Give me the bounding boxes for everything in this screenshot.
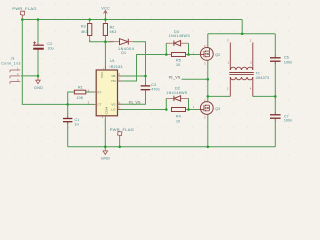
svg-text:J1: J1	[11, 56, 15, 60]
capacitor C3	[145, 83, 147, 93]
wire top rail	[22, 19, 242, 21]
svg-text:C1: C1	[75, 118, 80, 122]
svg-text:R2: R2	[110, 26, 115, 30]
pin 5 LO	[118, 109, 122, 111]
junction D3/R5 left	[165, 53, 168, 56]
svg-text:CT: CT	[97, 103, 101, 107]
wire R5 to Q2 gate	[189, 54, 201, 56]
power symbol VCC	[104, 11, 108, 20]
pin 1 VCC	[104, 66, 106, 70]
junction D3/R5 right	[187, 53, 190, 56]
svg-text:1N4148WS: 1N4148WS	[166, 91, 188, 95]
junction VS stub on half-bridge mid	[207, 78, 210, 81]
pin 2 RT	[93, 91, 96, 93]
junction D2/R4 left	[165, 108, 168, 111]
ic U1 IR2153	[96, 70, 117, 116]
svg-text:1n: 1n	[75, 123, 79, 127]
capacitor C2	[37, 42, 39, 51]
wire IC pin4 COM to ground rail	[104, 119, 106, 147]
capacitor C1	[67, 116, 69, 125]
wire VS net stub	[182, 78, 208, 80]
diode D2	[166, 96, 188, 110]
junction Q3 source on ground rail	[207, 146, 210, 149]
svg-text:4K3: 4K3	[110, 30, 117, 34]
wire C5 bottom to midpoint	[274, 62, 276, 114]
wire transformer left return	[208, 95, 231, 97]
resistor R1	[74, 90, 85, 94]
junction CT node R1/C1	[66, 103, 69, 106]
svg-text:C5: C5	[284, 56, 289, 60]
svg-text:LO: LO	[111, 108, 116, 112]
wire Q2 drain top	[207, 34, 209, 48]
svg-text:10K: 10K	[77, 96, 84, 100]
wire LO pin5 to R4	[118, 109, 167, 111]
transformer T1	[229, 43, 254, 97]
diode D1	[108, 39, 134, 45]
svg-text:10: 10	[176, 63, 180, 67]
pin 4 COM	[104, 116, 106, 119]
svg-text:Q3: Q3	[215, 107, 220, 111]
pin 3 CT	[93, 103, 96, 105]
svg-text:RT: RT	[97, 90, 101, 94]
svg-text:100n: 100n	[284, 119, 292, 123]
wire left vertical to CT row	[22, 20, 93, 105]
pin 8 VB	[118, 75, 122, 77]
resistor R3	[88, 24, 92, 36]
junction at PWR_FLAG on VCC rail	[21, 18, 24, 21]
svg-text:D1: D1	[121, 51, 126, 55]
svg-text:JM1073: JM1073	[256, 76, 270, 80]
ground GND left	[36, 76, 41, 84]
svg-text:R5: R5	[176, 58, 181, 62]
wire transformer right to cap midpoint	[253, 95, 275, 97]
capacitor C5	[274, 55, 276, 64]
pin 7 HO	[118, 80, 122, 82]
wire J1 pin2 to GND junction	[21, 75, 38, 77]
connector J1	[10, 70, 20, 84]
svg-text:U1: U1	[110, 59, 115, 63]
svg-text:COM: COM	[105, 107, 109, 115]
wire C1 bottom to ground rail	[67, 122, 69, 147]
wire R4 to Q3 gate	[189, 109, 201, 111]
resistor R5	[172, 53, 186, 57]
svg-text:GND: GND	[34, 86, 43, 90]
resistor R2	[103, 24, 107, 36]
svg-text:#1_VS: #1_VS	[169, 76, 181, 80]
junction at R2/VCC symbol on VCC rail	[104, 18, 107, 21]
junction at R3 on VCC rail	[88, 18, 91, 21]
wire VCC pin1 vertical	[104, 42, 106, 70]
wire C7 bottom to ground rail	[274, 119, 276, 147]
svg-text:R1: R1	[78, 86, 83, 90]
svg-text:1N4148WS: 1N4148WS	[169, 34, 191, 38]
wire C5 top	[274, 34, 276, 57]
junction at C2 on VCC rail	[37, 18, 40, 21]
junction transformer wire on half-bridge mid	[207, 95, 210, 98]
svg-text:VB: VB	[111, 74, 115, 78]
svg-text:R4: R4	[176, 114, 181, 118]
pin 6 VS	[118, 103, 122, 105]
svg-text:470n: 470n	[151, 88, 159, 92]
wire VS pin6 to C3 bottom	[118, 90, 146, 104]
svg-text:10u: 10u	[47, 46, 53, 50]
svg-text:#1_VS: #1_VS	[129, 100, 141, 104]
power flag PWR_FLAG bottom	[118, 132, 122, 147]
svg-text:Q2: Q2	[215, 53, 220, 57]
junction J1 pin2 / C2 / GND	[37, 75, 40, 78]
svg-text:Conn_1x3: Conn_1x3	[1, 61, 21, 65]
wire HO pin7 to gate row	[118, 55, 167, 82]
svg-text:10: 10	[176, 120, 180, 124]
junction PWR_FLAG on ground rail	[118, 146, 121, 149]
capacitor C7	[274, 112, 276, 121]
ground GND bottom	[103, 147, 108, 155]
junction R2/R3/D1/IC VCC node	[104, 40, 107, 43]
svg-text:HO: HO	[111, 79, 116, 83]
transistor Q2	[200, 48, 213, 61]
junction VCC drop on mid top row	[241, 33, 244, 36]
svg-text:VS: VS	[111, 102, 115, 106]
svg-text:PWR_FLAG: PWR_FLAG	[110, 127, 134, 132]
wire C1 top	[67, 104, 69, 118]
svg-text:VCC: VCC	[100, 72, 104, 79]
wire D1 cathode to VB junction	[134, 42, 146, 86]
svg-text:4K3: 4K3	[81, 30, 88, 34]
wire mid top row	[208, 33, 275, 35]
svg-text:1N4004: 1N4004	[118, 47, 134, 51]
svg-text:100n: 100n	[284, 60, 292, 64]
svg-text:VCC: VCC	[101, 7, 110, 11]
junction C5/C7 midpoint	[274, 95, 277, 98]
power flag PWR_FLAG top	[20, 11, 24, 19]
svg-text:PWR_FLAG: PWR_FLAG	[12, 6, 36, 11]
svg-text:IR2153: IR2153	[110, 65, 123, 69]
resistor R4	[172, 108, 186, 112]
junction D2/R4 right	[187, 108, 190, 111]
svg-text:T1: T1	[256, 71, 260, 75]
transistor Q3	[200, 102, 213, 115]
junction VB / D1 / C3	[144, 75, 147, 78]
wire Q3 source to ground rail	[207, 114, 209, 147]
wire C2 bottom to GND junction	[37, 49, 39, 76]
svg-text:GND: GND	[101, 157, 110, 161]
svg-text:C3: C3	[151, 83, 156, 87]
svg-text:R3: R3	[81, 24, 86, 28]
wire VCC drop to mid row	[241, 20, 243, 34]
wire bottom ground rail	[68, 146, 276, 148]
junction IC COM / GND on ground rail	[104, 146, 107, 149]
wire R1 right to pin2	[86, 91, 94, 93]
wire VB pin8	[118, 75, 146, 77]
wire C2 top branch	[37, 20, 39, 46]
wire R1 left leg to CT node	[68, 92, 75, 104]
wire R3 R2 join row	[90, 40, 114, 42]
diode D3	[166, 41, 188, 55]
wire half bridge mid vertical	[207, 60, 209, 102]
